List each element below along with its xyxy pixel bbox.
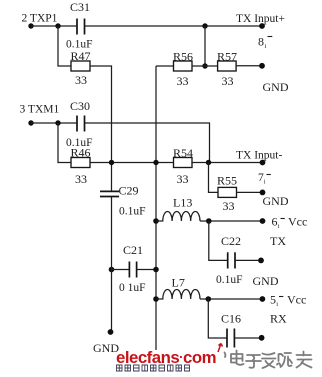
pin label 6 Vcc xyxy=(272,215,308,231)
wire R46 to R54 xyxy=(90,162,174,164)
inductor L13 xyxy=(156,212,200,222)
wire R47 to bus A xyxy=(90,65,112,67)
resistor R55 xyxy=(218,187,237,197)
svg-text:Vcc: Vcc xyxy=(287,293,306,307)
terminal dot TX Input- xyxy=(260,160,266,166)
wire R56 to R57 xyxy=(192,65,218,67)
svg-text:i: i xyxy=(276,301,278,308)
junction dot bus A row xyxy=(109,160,114,165)
capacitor C29 xyxy=(100,191,119,196)
wire R57 to GND terminal xyxy=(236,65,262,67)
terminal dot GND bottom xyxy=(108,329,114,335)
wire TXM1 to C30 xyxy=(31,122,77,124)
svg-text:RX: RX xyxy=(270,312,287,326)
svg-text:5: 5 xyxy=(270,293,276,307)
wire L7 to pin5 terminal xyxy=(200,298,262,300)
watermark elecfans.com logo xyxy=(116,344,223,368)
watermark chinese characters xyxy=(225,351,312,369)
wire C21 right xyxy=(137,269,156,271)
terminal dot C22 GND xyxy=(258,258,264,264)
svg-text:R55: R55 xyxy=(217,174,237,188)
terminal dot TX Input+ xyxy=(259,23,265,29)
svg-text:i: i xyxy=(264,179,266,186)
svg-text:GND: GND xyxy=(263,194,289,208)
junction dot TXP1 branch xyxy=(55,23,60,28)
junction dot TX Input+ node xyxy=(202,23,207,28)
junction dot C21 right xyxy=(153,267,159,273)
wire TX Input+ node down to R56 R57 row xyxy=(204,26,206,66)
svg-text:C31: C31 xyxy=(70,0,90,14)
wire TXP1 down to R47 xyxy=(58,26,71,66)
svg-text:33: 33 xyxy=(177,74,189,88)
resistor R57 xyxy=(218,61,237,71)
junction dot TX Input- node xyxy=(206,160,211,165)
svg-text:0.1uF: 0.1uF xyxy=(216,274,243,286)
junction dot bus B row xyxy=(153,160,158,165)
svg-text:R47: R47 xyxy=(71,49,91,63)
capacitor C31 xyxy=(77,19,85,35)
wire bus A upper vertical xyxy=(111,65,113,191)
svg-text:33: 33 xyxy=(222,74,234,88)
svg-text:GND: GND xyxy=(263,80,289,94)
terminal dot R55 GND xyxy=(260,190,266,196)
svg-text:TX: TX xyxy=(270,234,286,248)
svg-text:R54: R54 xyxy=(173,146,193,160)
svg-text:C30: C30 xyxy=(70,99,90,113)
wire TXP1 to C31 xyxy=(31,25,77,27)
svg-text:8: 8 xyxy=(258,35,264,49)
junction dot L13 right xyxy=(206,218,212,224)
junction dot L13 left xyxy=(153,218,159,224)
capacitor C30 xyxy=(77,116,85,132)
wire TX Input- down to R55 xyxy=(209,163,219,193)
svg-text:Vcc: Vcc xyxy=(288,215,307,229)
watermark caption strokes xyxy=(117,365,190,371)
wire C31 to TX Input+ terminal xyxy=(85,25,263,27)
svg-text:i: i xyxy=(265,43,267,50)
resistor R56 xyxy=(174,61,193,71)
svg-text:33: 33 xyxy=(75,172,87,186)
svg-text:C21: C21 xyxy=(123,243,143,257)
svg-text:6: 6 xyxy=(272,215,278,229)
terminal dot pin 6 xyxy=(260,218,266,224)
svg-text:R46: R46 xyxy=(71,146,91,160)
junction dot C21 left xyxy=(109,267,115,273)
pin label 7 xyxy=(258,172,271,186)
svg-text:0.1uF: 0.1uF xyxy=(119,206,146,218)
svg-text:3 TXM1: 3 TXM1 xyxy=(20,104,60,116)
wire R54 to TX Input- terminal xyxy=(192,162,263,164)
terminal dot RX xyxy=(259,335,265,341)
pin label 5 Vcc xyxy=(270,293,306,309)
svg-text:33: 33 xyxy=(177,172,189,186)
wire R55 to GND terminal xyxy=(237,191,263,193)
wire C22 to GND terminal xyxy=(235,259,261,261)
terminal dot R57 GND xyxy=(259,63,265,69)
wire R56 left to bus B xyxy=(156,65,174,67)
svg-text:TX Input-: TX Input- xyxy=(236,150,282,162)
junction dot TXM1 branch xyxy=(55,120,60,125)
resistor R46 xyxy=(71,158,90,168)
capacitor C22 xyxy=(228,252,235,268)
svg-text:C16: C16 xyxy=(221,312,241,326)
svg-text:33: 33 xyxy=(75,73,87,87)
junction dot L7 left xyxy=(153,296,159,302)
svg-text:C29: C29 xyxy=(119,184,139,198)
wire TXM1 down to R46 xyxy=(58,123,71,163)
wire C21 left xyxy=(112,269,130,271)
wire bus A lower vertical xyxy=(111,197,113,332)
capacitor C21 xyxy=(129,262,136,278)
svg-text:0 1uF: 0 1uF xyxy=(119,282,146,294)
svg-text:TX Input+: TX Input+ xyxy=(236,13,285,25)
wire L7 down to C16 xyxy=(208,299,227,338)
svg-text:L13: L13 xyxy=(173,196,192,210)
wire C30 to TX Input- node xyxy=(85,123,210,163)
svg-text:GND: GND xyxy=(253,274,279,288)
wire C16 to RX terminal xyxy=(234,337,261,339)
svg-text:R56: R56 xyxy=(173,50,193,64)
resistor R54 xyxy=(174,158,193,168)
svg-text:2 TXP1: 2 TXP1 xyxy=(22,13,58,25)
wire L13 down to C22 xyxy=(209,221,228,260)
junction dot L7 right xyxy=(206,296,212,302)
terminal dot TXP1 xyxy=(28,23,33,28)
pin label 8 xyxy=(258,35,272,51)
svg-text:elecfans·com: elecfans·com xyxy=(116,348,216,367)
inductor L7 xyxy=(156,290,200,300)
svg-text:33: 33 xyxy=(223,199,235,213)
terminal dot pin 5 xyxy=(260,296,266,302)
terminal dot TXM1 xyxy=(28,120,33,125)
svg-text:i: i xyxy=(278,223,280,230)
wire L13 to pin6 terminal xyxy=(200,220,263,222)
resistor R47 xyxy=(71,61,90,71)
junction dot between R56 R57 xyxy=(202,63,207,68)
capacitor C16 xyxy=(227,329,234,348)
svg-text:L7: L7 xyxy=(172,276,185,290)
wire bus B vertical xyxy=(155,66,157,350)
svg-text:R57: R57 xyxy=(217,50,237,64)
svg-text:C22: C22 xyxy=(221,234,241,248)
